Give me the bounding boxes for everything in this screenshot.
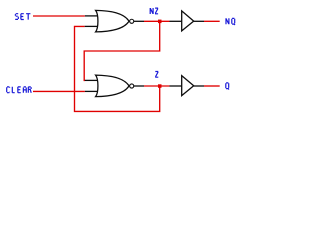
- wire NZ feedback to gate2 input: [84, 22, 160, 80]
- NOR gate U2 bubble: [130, 84, 134, 88]
- pin buffer1 input: [170, 20, 182, 22]
- wire SET input: [33, 15, 85, 17]
- pin buffer2 input: [170, 85, 182, 87]
- pin buffer1 output: [194, 20, 204, 22]
- node NZ label: [150, 8, 158, 14]
- pin gate2 input 2: [85, 90, 98, 92]
- junction Z: [158, 84, 162, 88]
- pin gate2 output: [134, 85, 144, 87]
- node Z label: [155, 72, 158, 78]
- pin gate1 input 1: [85, 15, 98, 17]
- junction NZ: [158, 20, 162, 24]
- wire Z feedback to gate1 input: [75, 26, 160, 111]
- wire NZ net (gate1 output to junction to buffer): [144, 20, 170, 22]
- node CLEAR label: [7, 87, 32, 93]
- wire Q output: [204, 85, 220, 87]
- NOR gate U1 bubble: [130, 19, 134, 23]
- node Q label: [226, 83, 229, 90]
- buffer U4 triangle: [182, 76, 194, 96]
- wire Z net (gate2 output to junction to buffer): [144, 85, 170, 87]
- NOR gate U1 body: [96, 10, 129, 32]
- pin gate2 input 1: [85, 79, 98, 81]
- pin gate1 input 2: [85, 25, 98, 27]
- buffer U3 triangle: [182, 11, 194, 31]
- wire NQ output: [204, 20, 220, 22]
- pin gate1 output: [134, 20, 144, 22]
- wire CLEAR input: [33, 90, 85, 92]
- pin buffer2 output: [194, 85, 204, 87]
- node SET label: [15, 14, 30, 20]
- node NQ label: [226, 18, 235, 25]
- NOR gate U2 body: [96, 75, 129, 97]
